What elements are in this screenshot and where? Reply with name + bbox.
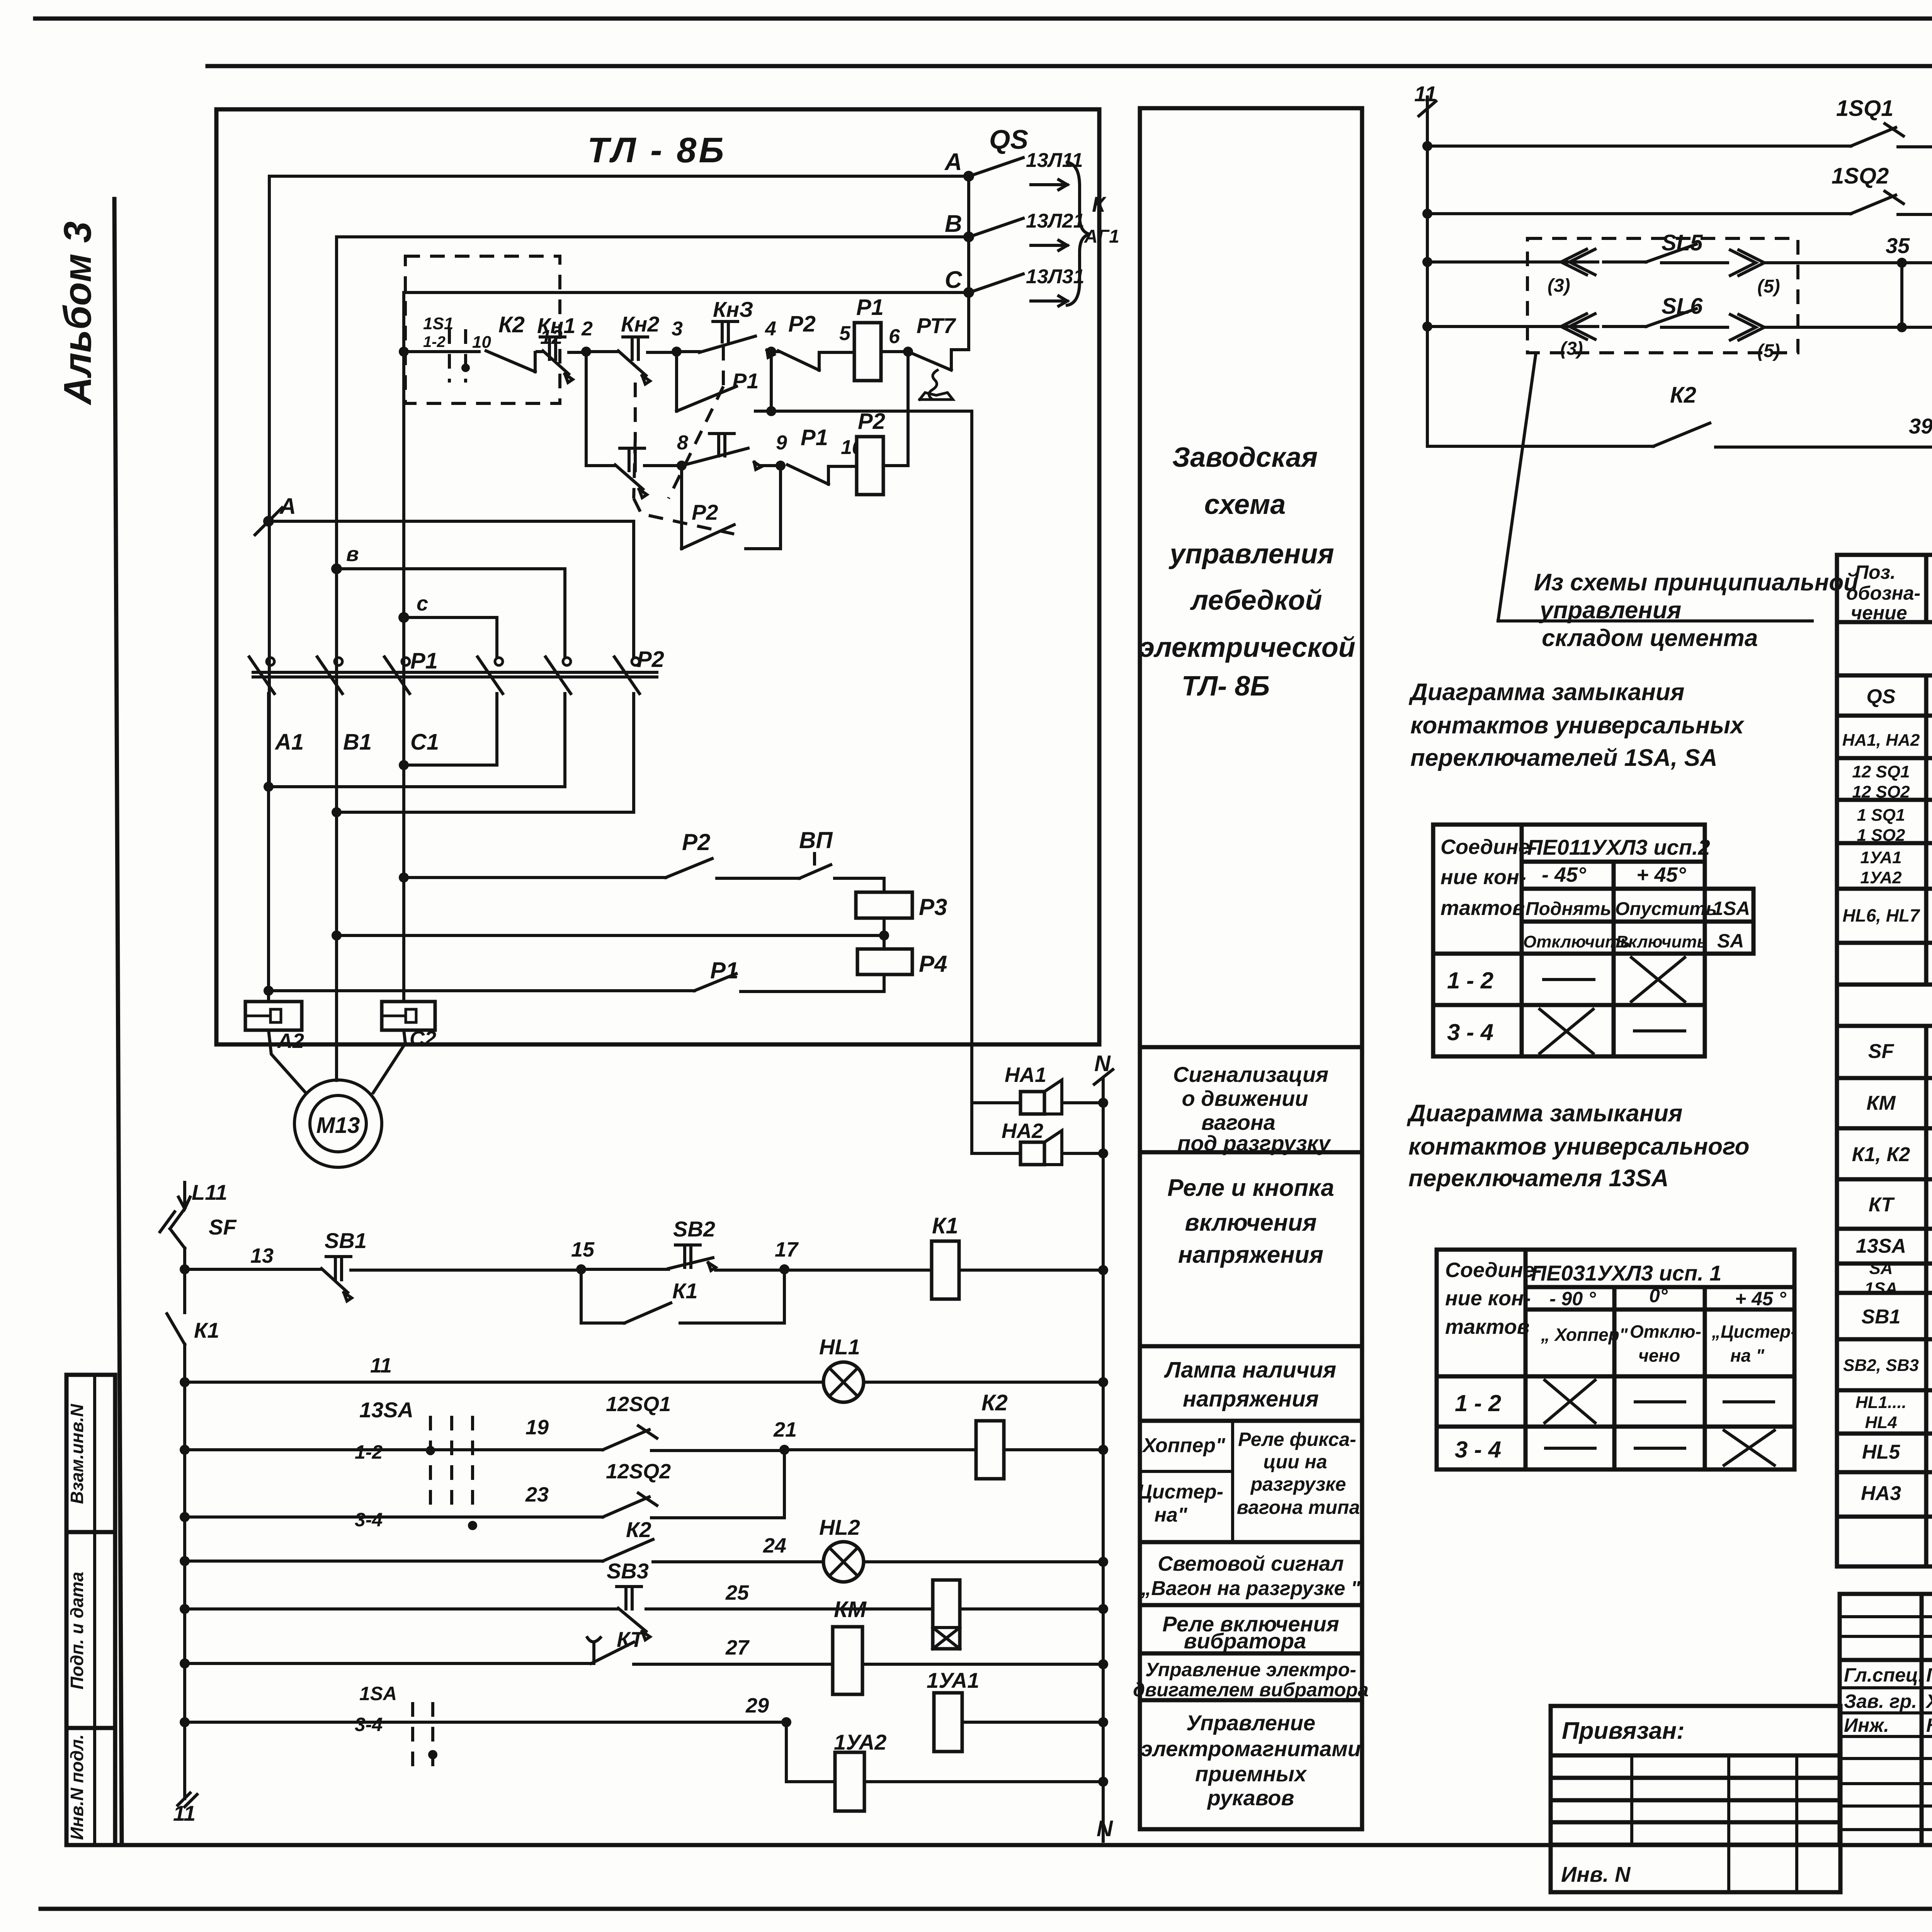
svg-text:29: 29 xyxy=(745,1694,769,1717)
svg-text:SА: SА xyxy=(1869,1259,1893,1278)
svg-text:27: 27 xyxy=(725,1636,750,1659)
push button Kn2 xyxy=(618,312,677,384)
svg-text:3: 3 xyxy=(672,318,683,340)
svg-text:Поднять: Поднять xyxy=(1526,899,1611,919)
svg-text:SF: SF xyxy=(209,1215,237,1239)
node C xyxy=(398,592,428,623)
svg-text:ПЕ011УХЛ3 исп.2: ПЕ011УХЛ3 исп.2 xyxy=(1527,835,1710,859)
motor M13 xyxy=(269,812,405,1167)
wire row P2 VP to relay P3 xyxy=(399,827,884,892)
svg-text:Взам.инв.N: Взам.инв.N xyxy=(67,1404,87,1504)
left margin stamp boxes xyxy=(66,1375,115,1845)
svg-text:13Л31: 13Л31 xyxy=(1026,265,1084,288)
note factory scheme xyxy=(1139,442,1355,702)
svg-text:12 SQ1: 12 SQ1 xyxy=(1852,762,1910,781)
note vibrator motor control xyxy=(1133,1659,1369,1701)
svg-text:А1: А1 xyxy=(274,730,304,755)
TL-8B factory schematic box xyxy=(216,109,1099,1044)
svg-text:1УА2: 1УА2 xyxy=(1860,868,1902,887)
svg-text:QS: QS xyxy=(989,124,1028,155)
push button SB1 xyxy=(321,1228,581,1301)
svg-text:чено: чено xyxy=(1638,1345,1680,1366)
note fixing relay cell xyxy=(1237,1429,1360,1518)
svg-text:N: N xyxy=(1097,1816,1113,1841)
svg-text:НА2: НА2 xyxy=(1002,1119,1043,1143)
svg-text:обозна-: обозна- xyxy=(1846,582,1920,604)
svg-text:Диаграмма замыкания: Диаграмма замыкания xyxy=(1408,679,1684,706)
svg-text:39: 39 xyxy=(1909,414,1932,438)
bus 11 top right schematic xyxy=(1414,82,1437,446)
svg-text:НА1: НА1 xyxy=(1005,1063,1046,1087)
row 24 contact K2 lamp HL2 xyxy=(180,1515,1108,1582)
svg-text:Р2: Р2 xyxy=(788,311,816,337)
svg-text:приемных: приемных xyxy=(1195,1762,1308,1786)
svg-text:Хоппер": Хоппер" xyxy=(1141,1434,1226,1457)
contactor rail xyxy=(253,647,664,677)
svg-text:в: в xyxy=(346,543,359,566)
svg-text:Диаграмма замыкания: Диаграмма замыкания xyxy=(1406,1100,1682,1127)
right bus N of control ladder xyxy=(1102,1078,1105,1841)
svg-text:17: 17 xyxy=(775,1238,799,1261)
svg-text:1 SQ1: 1 SQ1 xyxy=(1857,806,1905,825)
svg-text:35: 35 xyxy=(1886,233,1910,258)
wire row 33 xyxy=(1422,163,1932,219)
switch 13SA row 19 xyxy=(180,1398,603,1509)
svg-text:на ": на " xyxy=(1730,1345,1765,1366)
wire A to crossed contact xyxy=(269,521,634,657)
svg-text:„Цистер-: „Цистер- xyxy=(1711,1321,1797,1342)
relay coil K2 xyxy=(976,1390,1108,1479)
svg-text:SB3: SB3 xyxy=(607,1559,649,1583)
node 8 xyxy=(677,432,688,471)
svg-text:Инв.N подл.: Инв.N подл. xyxy=(67,1734,87,1840)
relay coil P4 xyxy=(857,949,947,991)
svg-text:0°: 0° xyxy=(1649,1285,1668,1306)
svg-text:3 - 4: 3 - 4 xyxy=(1455,1437,1501,1463)
element list rows text xyxy=(1842,685,1932,1507)
diagram table 2 header text xyxy=(1406,1100,1750,1192)
electromagnet coil 1UA2 branch xyxy=(786,1722,1108,1811)
svg-text:„ Хоппер": „ Хоппер" xyxy=(1541,1325,1628,1345)
svg-text:С: С xyxy=(945,267,963,293)
svg-text:схема: схема xyxy=(1204,489,1286,520)
phase wire A xyxy=(269,176,969,787)
svg-text:рукавов: рукавов xyxy=(1207,1786,1294,1810)
sheet outer bottom line xyxy=(41,1907,1932,1911)
relay coil P3 xyxy=(856,892,947,949)
svg-text:2: 2 xyxy=(581,318,593,340)
sheet top border line xyxy=(35,17,1932,21)
svg-text:АГ1: АГ1 xyxy=(1084,226,1119,247)
sheet left border xyxy=(114,199,122,1845)
row 27 contact KT coil KM xyxy=(180,1627,833,1668)
push button row2 left xyxy=(615,448,682,498)
node N top of right bus xyxy=(1094,1051,1113,1084)
svg-text:12SQ2: 12SQ2 xyxy=(606,1460,671,1483)
svg-text:Гл.спец.: Гл.спец. xyxy=(1844,1664,1923,1686)
svg-text:электрической: электрической xyxy=(1139,632,1355,663)
relay coil P2 xyxy=(857,352,908,495)
push button row2 right Kn xyxy=(682,434,781,469)
svg-text:QS: QS xyxy=(1866,685,1895,708)
wire row P1 contact xyxy=(264,957,884,996)
svg-text:под разгрузку: под разгрузку xyxy=(1177,1131,1332,1155)
node B xyxy=(331,543,359,574)
svg-text:Сигнализация: Сигнализация xyxy=(1173,1062,1328,1087)
svg-text:переключателей 1SA, SA: переключателей 1SA, SA xyxy=(1410,745,1718,771)
wire mid row to node P3 P4 xyxy=(332,930,889,940)
note signalization xyxy=(1173,1062,1332,1155)
QS pole B with arrow 13L21 xyxy=(974,210,1084,250)
svg-text:управления: управления xyxy=(1539,597,1681,624)
fuse C2 xyxy=(382,765,436,1050)
svg-text:чение: чение xyxy=(1851,602,1907,624)
svg-text:23: 23 xyxy=(525,1483,549,1506)
binding box Privyazan xyxy=(1551,1706,1840,1892)
holding contact K1 bypass xyxy=(581,1269,784,1323)
svg-text:+ 45°: + 45° xyxy=(1636,863,1686,886)
svg-text:Р2: Р2 xyxy=(637,647,664,672)
QS pole A with arrow 13L11 xyxy=(974,149,1083,190)
crossover link A1 xyxy=(264,694,565,792)
svg-text:вагона типа: вагона типа xyxy=(1237,1497,1360,1518)
svg-text:ции на: ции на xyxy=(1263,1451,1327,1473)
note lamp presence xyxy=(1164,1357,1336,1412)
svg-text:лебедкой: лебедкой xyxy=(1190,585,1322,616)
svg-text:Управление электро-: Управление электро- xyxy=(1145,1659,1356,1680)
svg-text:HL6, HL7: HL6, HL7 xyxy=(1842,905,1920,925)
supply entry L11 xyxy=(179,1180,227,1209)
svg-text:К1, К2: К1, К2 xyxy=(1852,1143,1910,1166)
svg-text:С2: С2 xyxy=(410,1027,436,1050)
wire row 37 with SL6 xyxy=(1422,263,1932,361)
svg-text:1 - 2: 1 - 2 xyxy=(1447,968,1493,993)
svg-text:Р1: Р1 xyxy=(856,295,884,320)
svg-text:Р1: Р1 xyxy=(801,425,828,450)
svg-text:HL1....: HL1.... xyxy=(1855,1393,1906,1412)
svg-text:1SA: 1SA xyxy=(1713,898,1750,919)
svg-text:Кошелева: Кошелева xyxy=(1926,1714,1932,1736)
svg-text:Отключить: Отключить xyxy=(1523,932,1630,951)
contact P1 row2 xyxy=(787,425,863,484)
breaker SF xyxy=(160,1209,237,1269)
svg-text:Зав. гр.: Зав. гр. xyxy=(1844,1690,1917,1712)
svg-text:Отклю-: Отклю- xyxy=(1630,1321,1701,1342)
svg-text:1 - 2: 1 - 2 xyxy=(1455,1390,1501,1416)
control row 2 wire xyxy=(586,352,615,466)
svg-text:ТЛ- 8Б: ТЛ- 8Б xyxy=(1182,671,1270,702)
contactor blades A1 B1 C1 and crossed xyxy=(249,657,639,755)
svg-text:Инж.: Инж. xyxy=(1844,1714,1889,1736)
title block frame xyxy=(1840,1594,1932,1845)
svg-text:Р2: Р2 xyxy=(692,500,718,524)
svg-text:13SA: 13SA xyxy=(359,1398,413,1422)
svg-text:А: А xyxy=(279,494,296,519)
vertical label Album 3 xyxy=(56,221,99,406)
row 13 wire with SB1 xyxy=(180,1244,321,1274)
row 23 wire 3-4 12SQ2 xyxy=(180,1450,784,1531)
svg-text:HL4: HL4 xyxy=(1865,1413,1897,1432)
svg-text:контактов универсальных: контактов универсальных xyxy=(1410,712,1745,739)
svg-text:(5): (5) xyxy=(1757,341,1780,361)
node A xyxy=(255,494,296,535)
crossover link B1 xyxy=(332,694,634,817)
svg-text:ПЕ031УХЛ3 исп. 1: ПЕ031УХЛ3 исп. 1 xyxy=(1531,1261,1721,1285)
svg-text:Р3: Р3 xyxy=(919,894,947,920)
svg-text:Подп. и дата: Подп. и дата xyxy=(67,1572,87,1690)
svg-text:А: А xyxy=(944,149,962,175)
svg-text:Р1: Р1 xyxy=(732,369,759,393)
svg-text:1SQ1: 1SQ1 xyxy=(1836,96,1893,121)
svg-text:13SA: 13SA xyxy=(1856,1235,1906,1257)
push button Kn1 xyxy=(537,313,586,383)
svg-text:Соедине-: Соедине- xyxy=(1440,835,1537,859)
svg-text:1SА: 1SА xyxy=(1864,1279,1898,1298)
svg-text:15: 15 xyxy=(571,1238,595,1261)
note electromagnets control xyxy=(1141,1711,1361,1810)
mechanical link dashes Kn3 xyxy=(668,346,723,498)
svg-text:Альбом 3: Альбом 3 xyxy=(56,221,99,406)
notes column box xyxy=(1140,108,1362,1829)
svg-text:(3): (3) xyxy=(1560,338,1583,359)
svg-text:(5): (5) xyxy=(1757,276,1780,297)
svg-text:ТЛ - 8Б: ТЛ - 8Б xyxy=(587,131,726,170)
svg-text:Кн2: Кн2 xyxy=(621,312,659,336)
wire row 31 xyxy=(1422,96,1932,151)
node 2 xyxy=(581,318,618,357)
mechanical link dashes Kn2 xyxy=(634,383,734,534)
limit switch 12SQ1 xyxy=(603,1393,976,1455)
svg-text:КМ: КМ xyxy=(1866,1092,1896,1114)
svg-text:К: К xyxy=(1092,192,1107,216)
svg-text:1 SQ2: 1 SQ2 xyxy=(1857,826,1905,845)
brace K AG1 xyxy=(1067,162,1119,305)
node 3 xyxy=(672,318,699,357)
svg-text:12 SQ2: 12 SQ2 xyxy=(1852,782,1910,801)
dashed enclosure 1S1 K2 xyxy=(405,256,560,403)
svg-text:К2: К2 xyxy=(498,312,525,337)
QS pole C with arrow 13L31 xyxy=(974,265,1084,306)
element list table grid xyxy=(1837,555,1932,1566)
node 15 xyxy=(571,1238,595,1274)
svg-text:КнЗ: КнЗ xyxy=(713,297,753,321)
row 29 switch 1SA xyxy=(180,1683,791,1767)
note relay and button xyxy=(1167,1175,1334,1268)
svg-text:о движении: о движении xyxy=(1182,1086,1308,1111)
svg-text:4: 4 xyxy=(765,318,776,340)
svg-text:3 - 4: 3 - 4 xyxy=(1447,1019,1493,1045)
svg-text:В1: В1 xyxy=(343,730,372,755)
left bus of control ladder xyxy=(183,1269,186,1799)
svg-text:КТ: КТ xyxy=(1869,1194,1895,1216)
siren HA2 xyxy=(972,1103,1108,1165)
svg-text:- 90 °: - 90 ° xyxy=(1549,1288,1596,1310)
svg-text:13Л21: 13Л21 xyxy=(1026,210,1084,232)
svg-text:SB2: SB2 xyxy=(673,1217,715,1241)
svg-text:ние кон-: ние кон- xyxy=(1445,1287,1531,1310)
svg-text:HL5: HL5 xyxy=(1862,1441,1900,1463)
node N bottom of right bus xyxy=(1097,1816,1113,1841)
svg-text:С1: С1 xyxy=(410,730,439,755)
phase wire C xyxy=(404,293,969,765)
svg-text:ние кон-: ние кон- xyxy=(1440,866,1526,889)
svg-text:Управление: Управление xyxy=(1186,1711,1315,1735)
svg-text:- 45°: - 45° xyxy=(1542,863,1586,886)
fuse A2 xyxy=(245,787,304,1053)
svg-text:Опустить: Опустить xyxy=(1615,899,1717,919)
sheet inner bottom line xyxy=(66,1843,1932,1847)
svg-text:13: 13 xyxy=(250,1244,274,1267)
phase wire B xyxy=(337,237,969,812)
contactor coil KM xyxy=(833,1597,1108,1694)
sheet inner frame top line xyxy=(207,64,1932,68)
svg-text:А2: А2 xyxy=(277,1029,304,1053)
svg-text:24: 24 xyxy=(763,1534,786,1557)
svg-text:на": на" xyxy=(1155,1504,1188,1526)
svg-text:25: 25 xyxy=(725,1581,749,1604)
wire B to crossed contact xyxy=(337,569,565,657)
wire C to crossed contact xyxy=(404,617,497,657)
svg-text:разгрузке: разгрузке xyxy=(1250,1473,1346,1495)
svg-text:10: 10 xyxy=(472,333,491,352)
svg-text:8: 8 xyxy=(677,432,688,454)
bypass wire row (P1 contact) xyxy=(677,352,972,416)
svg-text:РТ7: РТ7 xyxy=(917,313,956,338)
leader note from SL contacts xyxy=(1498,353,1858,651)
svg-text:Соедине-: Соедине- xyxy=(1445,1259,1542,1282)
disconnector QS vertical xyxy=(944,124,1028,347)
relay coil P1 xyxy=(854,295,884,381)
electromagnet coil 1UA1 xyxy=(927,1668,1108,1752)
svg-text:Кн1: Кн1 xyxy=(537,313,575,338)
row 11 wire with lamp HL1 xyxy=(180,1335,1108,1402)
svg-text:1УА1: 1УА1 xyxy=(927,1668,979,1692)
contact P2 row1 xyxy=(778,311,854,370)
svg-text:1-2: 1-2 xyxy=(423,333,446,350)
svg-text:1SA: 1SA xyxy=(359,1683,397,1704)
svg-text:+ 45 °: + 45 ° xyxy=(1735,1288,1787,1310)
svg-text:Потехин: Потехин xyxy=(1926,1664,1932,1686)
svg-text:НА3: НА3 xyxy=(1861,1482,1901,1505)
push button SB2 xyxy=(581,1217,784,1270)
svg-text:Цистер-: Цистер- xyxy=(1138,1481,1223,1503)
note hopper cell xyxy=(1138,1434,1226,1526)
node 17 xyxy=(775,1238,932,1274)
svg-text:В: В xyxy=(945,211,962,237)
svg-text:L11: L11 xyxy=(192,1180,227,1204)
svg-text:19: 19 xyxy=(526,1416,549,1439)
svg-text:HL2: HL2 xyxy=(819,1515,860,1539)
svg-text:Р1: Р1 xyxy=(410,648,438,673)
switch 1S1 contacts 1-2 xyxy=(423,314,491,383)
svg-text:SB2, SB3: SB2, SB3 xyxy=(1843,1356,1919,1375)
node 4 xyxy=(765,318,776,357)
svg-text:электромагнитами: электромагнитами xyxy=(1141,1736,1361,1761)
diagram table 1 header text xyxy=(1408,679,1745,771)
wire row 35 with SL5 xyxy=(1422,230,1932,297)
svg-text:5: 5 xyxy=(839,322,851,345)
contact K2 row1 xyxy=(486,312,563,372)
svg-text:контактов универсального: контактов универсального xyxy=(1408,1133,1750,1160)
svg-text:SB1: SB1 xyxy=(325,1228,367,1253)
thermal relay RT7 xyxy=(908,313,969,400)
svg-text:21: 21 xyxy=(773,1418,797,1441)
svg-text:9: 9 xyxy=(776,432,787,454)
svg-text:НА1, НА2: НА1, НА2 xyxy=(1842,731,1920,750)
svg-text:К2: К2 xyxy=(981,1390,1008,1415)
svg-text:1-2: 1-2 xyxy=(355,1441,383,1463)
svg-text:управления: управления xyxy=(1168,539,1334,570)
svg-text:Заводская: Заводская xyxy=(1172,442,1318,473)
relay coil K1 xyxy=(932,1213,1108,1299)
svg-text:вибратора: вибратора xyxy=(1184,1629,1306,1653)
svg-text:тактов: тактов xyxy=(1445,1315,1529,1338)
contact P2 lower bypass xyxy=(682,466,781,549)
svg-text:Лампа наличия: Лампа наличия xyxy=(1164,1357,1336,1383)
siren HA1 xyxy=(972,1063,1108,1114)
svg-text:КМ: КМ xyxy=(834,1597,867,1622)
note light signal wagon xyxy=(1141,1552,1361,1600)
feeder vertical to horns xyxy=(970,411,973,1103)
svg-text:с: с xyxy=(417,592,428,615)
svg-text:SF: SF xyxy=(1868,1040,1895,1063)
svg-text:SA: SA xyxy=(1717,930,1744,952)
svg-text:напряжения: напряжения xyxy=(1178,1242,1323,1268)
svg-text:складом цемента: складом цемента xyxy=(1542,625,1758,651)
contact K1 on left bus xyxy=(167,1314,219,1344)
svg-text:включения: включения xyxy=(1185,1209,1316,1236)
svg-text:Включить: Включить xyxy=(1616,932,1707,951)
svg-text:3-4: 3-4 xyxy=(355,1714,383,1735)
node 6 xyxy=(881,325,913,357)
svg-text:SB1: SB1 xyxy=(1861,1306,1900,1328)
title block texts xyxy=(1844,1616,1932,1847)
svg-text:Инв. N: Инв. N xyxy=(1561,1862,1631,1886)
svg-text:К1: К1 xyxy=(672,1279,698,1303)
svg-text:(3): (3) xyxy=(1548,276,1570,296)
svg-text:1УА1: 1УА1 xyxy=(1860,848,1901,867)
svg-text:11: 11 xyxy=(370,1354,392,1377)
svg-text:переключателя 13SA: переключателя 13SA xyxy=(1408,1165,1669,1192)
svg-text:6: 6 xyxy=(889,325,900,348)
diagram table 1SA SA xyxy=(1433,825,1753,1056)
control row 1 wire (nodes 10,12,2,3,4,5,6) xyxy=(399,347,479,357)
svg-text:„Вагон на разгрузке ": „Вагон на разгрузке " xyxy=(1141,1577,1361,1600)
svg-text:двигателем вибратора: двигателем вибратора xyxy=(1133,1679,1369,1701)
bus end marks node 11 bottom xyxy=(173,1793,197,1825)
svg-text:Поз.: Поз. xyxy=(1855,561,1896,583)
svg-text:Реле и кнопка: Реле и кнопка xyxy=(1167,1175,1334,1201)
svg-text:тактов: тактов xyxy=(1440,896,1525,920)
note vibrator relay xyxy=(1162,1612,1339,1653)
svg-text:Реле фикса-: Реле фикса- xyxy=(1238,1429,1356,1450)
svg-text:Р2: Р2 xyxy=(682,829,710,855)
title TL-8B xyxy=(587,131,726,170)
svg-text:3-4: 3-4 xyxy=(355,1509,383,1531)
svg-text:Р4: Р4 xyxy=(919,951,947,977)
element list header texts xyxy=(1846,561,1932,624)
svg-text:Из схемы принципиальной: Из схемы принципиальной xyxy=(1534,569,1858,596)
wire node12 to button Kn1 xyxy=(537,350,543,353)
svg-text:1SQ2: 1SQ2 xyxy=(1832,163,1889,189)
crossover link C1 xyxy=(399,694,497,770)
svg-text:Р2: Р2 xyxy=(858,409,885,434)
svg-text:Хрипушкина: Хрипушкина xyxy=(1925,1690,1932,1712)
svg-text:Привязан:: Привязан: xyxy=(1562,1718,1685,1744)
dashed enclosure SL5 SL6 xyxy=(1527,238,1798,353)
svg-text:К1: К1 xyxy=(932,1213,958,1238)
svg-text:К2: К2 xyxy=(626,1517,651,1542)
